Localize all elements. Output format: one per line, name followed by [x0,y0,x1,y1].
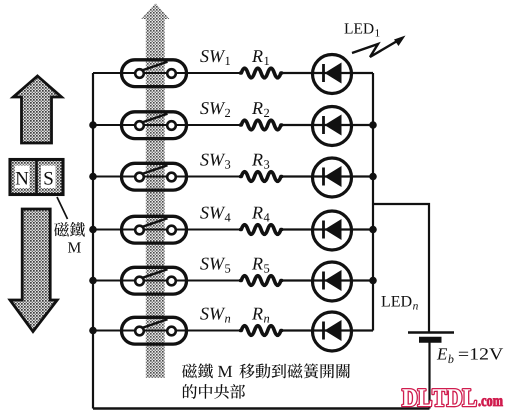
bottom wire [93,407,430,410]
wire: left bus to reed switch SW2 and resistor R2 [93,124,241,126]
resistor R1 [241,68,282,78]
label R5 [252,258,269,273]
label SW1 [200,50,230,65]
left bus wire [92,73,94,409]
resistor R5 [241,276,282,286]
reed switch SW1 [122,60,187,87]
label magnet: 磁鐵 M [54,222,85,253]
resistor R2 [241,120,282,130]
down motion arrow [10,209,57,332]
wire: LED bus to battery branch [373,204,429,332]
magnet M (N-S bar magnet) [10,159,63,197]
caption line 2: 的中央部 [183,384,245,399]
label Rn [252,308,269,323]
reed switch SW4 [122,216,187,243]
light emission flash arrow [352,36,406,58]
up motion arrow [13,76,61,143]
LED5 (diode in circle) [281,262,373,301]
reed switch SW3 [122,163,187,190]
LED bus junction nodes [369,121,377,129]
label R4 [252,207,270,222]
left bus junction nodes [89,121,97,129]
wire: battery negative to bottom wire [428,342,430,409]
resistor R4 [241,225,282,235]
label R3 [252,154,269,169]
leader line from magnet to label [57,197,68,219]
wire: left bus to reed switch SW5 and resistor R5 [93,280,241,282]
wire: left bus to reed switch SW3 and resistor R3 [93,176,241,178]
resistor R3 [241,172,282,182]
LED1 (diode in circle) [281,55,373,94]
label SW4 [200,207,230,222]
caption line 1: 磁鐵 M 移動到磁簧開關 [182,363,350,378]
label SWn [200,308,230,323]
label R1 [252,50,269,65]
LED output bus wire [372,73,374,331]
wire: left bus to reed switch SW1 and resistor R1 [93,72,241,74]
battery Eb [408,333,454,340]
LED2 (diode in circle) [281,107,373,146]
LED4 (diode in circle) [281,211,373,250]
resistor Rn [241,326,282,336]
wire: left bus to reed switch SW4 and resistor R4 [93,229,241,231]
reed switch SWn [122,317,187,344]
label SW5 [200,258,230,273]
label LEDn [381,296,417,309]
label SW2 [200,102,230,117]
LEDn (diode in circle) [281,312,373,351]
label LED1 [344,23,379,36]
magnet travel arrow (vertical gray band with arrowhead) [141,3,169,378]
label SW3 [200,154,230,169]
LED3 (diode in circle) [281,158,373,197]
reed switch SW2 [122,112,187,139]
reed switch SW5 [122,267,187,294]
label Eb = 12V [437,348,503,363]
watermark logo DLTDL.com [402,389,502,406]
wire: left bus to reed switch SWn and resistor Rn [93,330,241,332]
label R2 [252,102,269,117]
